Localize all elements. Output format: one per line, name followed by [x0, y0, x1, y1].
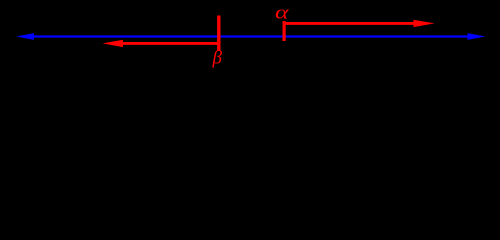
- svg-text:α: α: [275, 3, 290, 24]
- svg-text:β: β: [212, 48, 223, 69]
